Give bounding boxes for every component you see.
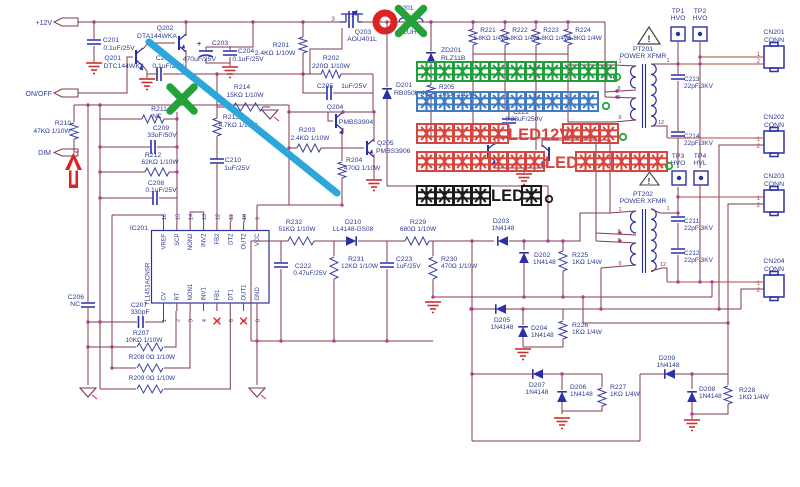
svg-text:R226: R226 <box>572 322 588 329</box>
svg-text:AOU401L: AOU401L <box>347 36 377 43</box>
wire D202 top <box>523 241 525 250</box>
svg-text:IC201: IC201 <box>130 225 148 232</box>
svg-text:NC: NC <box>70 301 80 308</box>
svg-text:HVL: HVL <box>693 160 706 167</box>
wire PT202 pin9 <box>596 241 636 243</box>
wire D206 bottom <box>561 402 563 414</box>
svg-text:FB1: FB1 <box>215 289 221 301</box>
svg-text:C201: C201 <box>103 37 119 44</box>
svg-text:RLZ11B: RLZ11B <box>441 55 466 62</box>
wire pin9 up <box>256 205 258 222</box>
svg-text:8: 8 <box>617 86 620 92</box>
transistor Q205 <box>366 141 368 155</box>
svg-text:22pF/3KV: 22pF/3KV <box>684 225 714 232</box>
svg-text:1: 1 <box>618 59 621 65</box>
wire PT201 pin1 <box>614 65 636 66</box>
svg-text:13: 13 <box>202 214 208 220</box>
svg-text:1: 1 <box>618 207 621 213</box>
svg-text:8: 8 <box>255 319 261 322</box>
svg-text:NON2: NON2 <box>188 233 194 250</box>
junction CV row <box>86 320 89 323</box>
svg-text:C211: C211 <box>684 218 699 225</box>
svg-text:D204: D204 <box>531 325 547 332</box>
junction C209 right <box>175 145 178 148</box>
junction R228 gnd <box>690 412 693 415</box>
wire ZD201 bottom <box>430 63 432 85</box>
wire C208 right <box>159 197 177 199</box>
ground D208 <box>684 420 700 431</box>
connector CN202 <box>764 128 784 157</box>
wire VREF col <box>111 215 113 368</box>
mark: red circle (LED 12V power point) <box>376 13 394 31</box>
wire fb bus 2 <box>314 240 346 242</box>
wire HV column A bottom <box>677 255 679 282</box>
wire R203 left <box>289 147 297 149</box>
transistor Q206 <box>487 145 489 159</box>
svg-text:VCC: VCC <box>255 233 261 246</box>
diode D208 <box>687 392 697 402</box>
wire R201 bottom <box>302 53 304 74</box>
ground Q205 <box>366 180 382 191</box>
junction PT202 pin9 <box>618 239 621 242</box>
resistor R213 <box>213 118 221 136</box>
wire Q203 gate <box>310 28 342 74</box>
wire R227 top <box>601 374 603 387</box>
junction left col B <box>98 103 101 106</box>
wire Q201 emitter <box>143 66 147 74</box>
svg-text:Q204: Q204 <box>327 104 344 111</box>
junction CN202 return <box>717 307 720 310</box>
pin 9 VCC <box>256 222 258 231</box>
pin 1 CV <box>163 303 165 311</box>
wire D201 bottom <box>386 99 388 186</box>
junction C223 bottom <box>385 339 388 342</box>
wire D206 stub <box>561 374 563 390</box>
junction mid col y112 <box>287 110 290 113</box>
pin 16 VREF <box>163 222 165 231</box>
wire PT201 pin6 <box>614 120 636 122</box>
capacitor C206 <box>81 303 95 307</box>
wire HV column A mid2 <box>677 223 679 248</box>
svg-text:NC: NC <box>152 113 162 120</box>
junction C209 left <box>98 145 101 148</box>
svg-text:D206: D206 <box>570 384 586 391</box>
svg-text:C213: C213 <box>684 76 700 83</box>
wire to open ground <box>256 341 258 385</box>
wire HV column B upper <box>699 42 701 168</box>
wire D204 bottom <box>522 337 524 347</box>
svg-text:1N4148: 1N4148 <box>657 362 680 369</box>
capacitor C202 <box>157 67 161 81</box>
junction row2 left <box>469 307 472 310</box>
annotation black text b <box>522 186 541 205</box>
svg-text:DTA144WKA: DTA144WKA <box>137 33 177 40</box>
wire +12V rail left <box>78 21 340 23</box>
svg-text:C209: C209 <box>153 125 169 132</box>
svg-text:Q203: Q203 <box>355 29 372 36</box>
svg-text:D205: D205 <box>494 317 510 324</box>
wire R231 top <box>333 241 335 256</box>
wire R209 to pin6 <box>164 311 230 389</box>
resistor R229 <box>405 237 429 245</box>
resistor R224 <box>564 29 572 45</box>
junction D204 top <box>521 307 524 310</box>
junction R230 gnd <box>431 295 434 298</box>
warning triangle PT201 <box>638 27 660 44</box>
wire Q202 collector <box>185 50 187 74</box>
svg-text:9: 9 <box>617 238 620 244</box>
svg-text:C204: C204 <box>238 48 254 55</box>
diode D202 <box>519 253 529 263</box>
svg-text:22pF/3KV: 22pF/3KV <box>684 140 714 147</box>
diode D204 <box>518 327 528 337</box>
svg-text:R224: R224 <box>575 27 591 34</box>
svg-text:INV1: INV1 <box>202 286 208 300</box>
svg-text:R208 0Ω 1/10W: R208 0Ω 1/10W <box>129 354 176 361</box>
resistor R204 <box>338 162 346 178</box>
pin 6 DT1 <box>229 303 231 311</box>
junction R207 left <box>86 345 89 348</box>
svg-text:0.1uF/25V: 0.1uF/25V <box>232 56 264 63</box>
wire Q207 collector to PT202 pin1 <box>542 140 610 213</box>
wire left col A upper <box>87 105 89 302</box>
svg-text:LED12V: LED12V <box>508 126 570 144</box>
wire C222 bottom <box>280 269 282 341</box>
wire R205 bottom <box>430 99 432 140</box>
wire R204 bottom <box>341 178 343 205</box>
wire HV column A to C211 <box>677 187 679 216</box>
svg-text:R204: R204 <box>346 157 362 164</box>
wire CN203 pin1 <box>678 196 764 198</box>
wire C201 top <box>93 22 95 39</box>
svg-text:680Ω 1/10W: 680Ω 1/10W <box>400 226 437 233</box>
wire CN201 pin2 <box>678 63 764 65</box>
wire to PT201 pin1 <box>568 64 614 66</box>
svg-text:!: ! <box>648 177 651 186</box>
None <box>399 9 424 34</box>
ground (open) left <box>80 388 96 397</box>
svg-text:C214: C214 <box>684 133 700 140</box>
wire PT201 pin8 <box>605 90 636 92</box>
svg-text:FB2: FB2 <box>215 233 221 245</box>
resistor R210 <box>70 123 78 139</box>
junction R212 right <box>175 170 178 173</box>
svg-text:TP1: TP1 <box>672 8 685 15</box>
wire loop riser <box>639 374 641 441</box>
wire PT201 pin12 <box>651 126 667 138</box>
svg-text:1KΩ 1/4W: 1KΩ 1/4W <box>739 394 770 401</box>
junction CN201 pin1 tap <box>698 55 701 58</box>
capacitor C212 <box>671 249 685 253</box>
resistor R226 <box>559 321 567 339</box>
wire Q204 collector <box>342 112 344 114</box>
wire R211 right <box>164 118 177 120</box>
wire D201 to feedback bus <box>387 186 548 241</box>
wire fb bus 3 <box>358 240 405 242</box>
wire +12V rail right <box>362 21 605 23</box>
transistor Q203 (P-MOSFET) <box>340 11 363 28</box>
mark: thick blue jumper line <box>149 42 337 193</box>
junction gate node <box>301 72 304 75</box>
junction R221 rail <box>471 20 474 23</box>
resistor R207 <box>137 343 163 351</box>
junction HV B bottom <box>698 280 701 283</box>
wire C203-C204 top bus <box>206 22 253 47</box>
svg-text:C212: C212 <box>684 250 700 257</box>
pin 7 OUT1 <box>243 303 245 311</box>
svg-text:1KΩ 1/4W: 1KΩ 1/4W <box>572 329 603 336</box>
svg-text:51KΩ 1/10W: 51KΩ 1/10W <box>278 226 316 233</box>
svg-text:12: 12 <box>660 262 666 268</box>
annotation red text c <box>417 152 544 171</box>
wire R222 bottom <box>504 45 506 54</box>
wire PT202 pin6 riser <box>600 268 602 309</box>
wire pin10 stub <box>243 214 245 222</box>
svg-text:Q205: Q205 <box>377 140 394 147</box>
wire R228 top <box>727 374 729 385</box>
None <box>631 66 637 88</box>
input flag ON/OFF <box>54 89 78 97</box>
wire PT202 pin1 <box>610 211 636 213</box>
svg-text:R211: R211 <box>151 106 167 113</box>
connector CN204 <box>764 272 784 301</box>
input flag DIM <box>54 149 78 156</box>
capacitor C214 <box>671 132 685 136</box>
junction PT201 pin8 <box>615 89 618 92</box>
resistor R214 <box>233 103 263 111</box>
wire R223 top <box>535 22 537 29</box>
wire CN203 pin2 return <box>728 204 764 374</box>
wire C204 top <box>229 47 231 50</box>
svg-text:12: 12 <box>215 214 221 220</box>
wire pin8 GND down <box>256 311 258 341</box>
wire R207 to pin2 <box>164 311 176 347</box>
ground D206 <box>554 418 570 429</box>
junction HV A top <box>676 62 679 65</box>
resistor R231 <box>330 257 338 279</box>
pin 5 FB1 <box>216 303 218 311</box>
svg-text:Q201: Q201 <box>104 55 121 62</box>
diode D209 <box>665 369 675 379</box>
wire Q204 base <box>328 112 333 121</box>
diode D205 <box>496 304 506 314</box>
svg-text:R228: R228 <box>739 387 755 394</box>
wire R227 bottom <box>562 406 602 411</box>
wire row2 bus <box>471 308 741 310</box>
resistor R223 <box>532 29 540 45</box>
svg-text:1N4148: 1N4148 <box>491 324 514 331</box>
svg-text:OUT1: OUT1 <box>242 284 248 301</box>
wire emitter ground stem <box>523 168 525 173</box>
svg-text:+: + <box>197 41 201 48</box>
wire ON/OFF to Q201 base <box>78 57 133 93</box>
svg-text:R205: R205 <box>439 84 455 91</box>
svg-text:6: 6 <box>618 115 621 121</box>
None <box>631 98 637 120</box>
wire C203 bottom <box>206 58 230 63</box>
svg-text:SCP: SCP <box>175 234 181 246</box>
wire right col to pin15 <box>176 112 178 222</box>
ground (open) R214 <box>262 110 278 119</box>
wire R226 bottom <box>562 339 564 347</box>
wire R201 top <box>302 22 304 37</box>
input flag +12V <box>54 18 78 26</box>
svg-text:POWER XFMR: POWER XFMR <box>620 198 667 205</box>
wire R230 top <box>432 241 434 256</box>
wire row3 right <box>640 373 728 375</box>
pin 15 SCP <box>176 222 178 231</box>
wire C223 top <box>386 241 388 262</box>
wire D208 stub <box>691 374 693 389</box>
wire pin16 up <box>163 215 165 222</box>
wire R212 right <box>169 171 177 173</box>
svg-text:330pF: 330pF <box>130 309 149 316</box>
ground drive stage <box>516 174 532 185</box>
junction D208 top <box>690 372 693 375</box>
capacitor C210 <box>210 159 224 163</box>
None <box>651 64 656 126</box>
svg-text:R214: R214 <box>234 84 250 91</box>
svg-text:15: 15 <box>175 214 181 220</box>
zener diode ZD201 <box>426 53 436 63</box>
junction R224 rail <box>566 20 569 23</box>
wire R226 top <box>562 309 564 320</box>
wire C222 top <box>280 241 282 262</box>
wire R230 bottom <box>432 279 434 297</box>
wire PT201 sec top <box>651 64 678 65</box>
wire R221 top <box>472 22 474 29</box>
wire node A left <box>147 73 156 75</box>
wire Q201 collector to Q202 base <box>143 43 175 49</box>
None <box>399 18 423 22</box>
svg-text:CN204: CN204 <box>763 258 784 265</box>
wire R210 bottom <box>74 139 78 152</box>
wire fb left riser <box>250 241 252 341</box>
wire fb bus 4 <box>429 240 494 242</box>
svg-text:D202: D202 <box>534 252 550 259</box>
junction Q205 collector <box>372 110 375 113</box>
svg-text:22pF/3KV: 22pF/3KV <box>684 257 714 264</box>
diode D207 <box>533 369 543 379</box>
svg-text:6: 6 <box>229 319 235 322</box>
junction R208 left <box>110 366 113 369</box>
wire VREF link <box>112 214 164 216</box>
wire R202 left <box>303 73 321 75</box>
wire R221 bottom <box>472 45 474 54</box>
annotation blue text <box>417 92 598 111</box>
junction Q204 collector <box>341 110 344 113</box>
svg-text:1N4148: 1N4148 <box>531 332 554 339</box>
wire R222 top <box>504 22 506 29</box>
svg-text:LED: LED <box>491 187 524 205</box>
test point TP4 <box>694 171 708 185</box>
svg-text:OUT2: OUT2 <box>242 233 248 250</box>
svg-text:62KΩ 1/10W: 62KΩ 1/10W <box>141 159 179 166</box>
wire C201 bottom <box>93 46 95 62</box>
junction R201 rail <box>301 20 304 23</box>
wire R214 right <box>263 106 270 108</box>
junction R212 left <box>98 170 101 173</box>
junction R213 top <box>215 72 218 75</box>
svg-text:0.1uF/25V: 0.1uF/25V <box>145 187 177 194</box>
wire R226 to ground <box>523 346 563 348</box>
junction D201 line <box>546 239 549 242</box>
resistor R230 <box>429 257 437 279</box>
annotation red text a <box>417 124 508 143</box>
svg-text:4: 4 <box>202 319 208 322</box>
wire Q205 emitter <box>373 154 375 179</box>
mark: red arrow (LED brightness control) <box>65 153 82 189</box>
svg-text:Q202: Q202 <box>157 25 174 32</box>
svg-text:C203: C203 <box>212 40 228 47</box>
svg-text:D207: D207 <box>529 382 545 389</box>
junction col472 row3 <box>470 372 473 375</box>
wire D204 top stub <box>522 309 524 325</box>
wire CV row left <box>88 321 137 323</box>
annotation green text <box>417 62 616 81</box>
svg-text:ZD201: ZD201 <box>441 47 462 54</box>
svg-text:PMBS3904: PMBS3904 <box>339 119 374 126</box>
wire R223 bottom <box>535 45 537 54</box>
svg-text:DIM: DIM <box>38 150 51 157</box>
junction HV A bottom <box>676 280 679 283</box>
wire R223 down <box>535 54 537 150</box>
wire CN204 pin2 return <box>741 289 764 309</box>
ground (open) mid <box>249 388 265 397</box>
annotation black text a <box>417 186 490 205</box>
svg-text:R221: R221 <box>480 27 496 34</box>
wire bottom bus <box>251 340 433 342</box>
wire HV column B lower <box>699 187 701 282</box>
pin 3 NON1 <box>189 303 191 311</box>
svg-text:D203: D203 <box>493 218 509 225</box>
svg-text:DT1: DT1 <box>228 289 234 301</box>
mark: X on pin5 <box>214 318 221 325</box>
svg-text:R231: R231 <box>348 256 364 263</box>
wire PT202 pin6 <box>601 265 636 268</box>
junction y323 link <box>726 321 729 324</box>
annotation red text b <box>563 124 618 143</box>
pin 4 INV1 <box>203 303 205 311</box>
svg-text:R230: R230 <box>441 256 457 263</box>
svg-text:R209 0Ω 1/10W: R209 0Ω 1/10W <box>129 375 176 382</box>
junction C201 tap <box>92 20 95 23</box>
junction R231 bottom <box>332 339 335 342</box>
ground C202 <box>139 79 155 90</box>
svg-text:D209: D209 <box>659 355 675 362</box>
resistor R227 <box>598 388 606 406</box>
junction R222 rail <box>503 20 506 23</box>
junction C222 bottom <box>279 339 282 342</box>
svg-text:14: 14 <box>189 214 195 220</box>
svg-text:9: 9 <box>255 217 261 220</box>
svg-text:1uF/25V: 1uF/25V <box>396 263 421 270</box>
svg-text:LL4148-GS08: LL4148-GS08 <box>333 226 374 233</box>
svg-text:CN203: CN203 <box>763 173 784 180</box>
wire C205 right <box>333 74 373 93</box>
resistor R212 <box>145 168 169 176</box>
capacitor C203 (electrolytic) <box>199 50 213 52</box>
diode D203 <box>498 236 508 246</box>
annotation red text d <box>576 152 667 171</box>
junction C208 left <box>98 196 101 199</box>
junction GND bus <box>255 339 258 342</box>
wire HV column A lower <box>677 138 679 168</box>
wire R214 left <box>217 106 233 108</box>
pin 2 RT <box>176 303 178 311</box>
wire left col A lower <box>87 308 89 385</box>
wire C205 left <box>303 74 326 93</box>
